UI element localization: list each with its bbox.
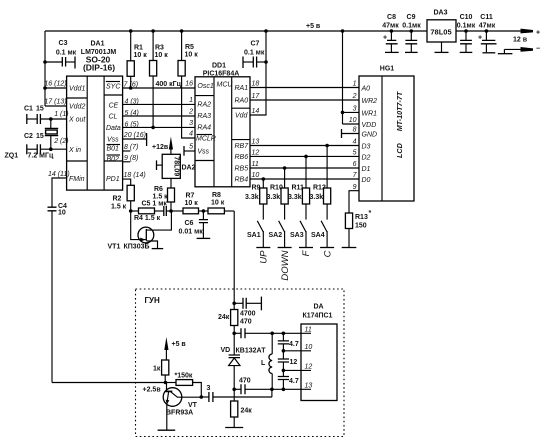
svg-text:9: 9 [353, 184, 357, 191]
svg-text:SA3: SA3 [290, 232, 304, 239]
capacitor 4.7 lower trimmer [278, 370, 299, 391]
svg-text:DA3: DA3 [433, 10, 447, 17]
svg-text:SYC: SYC [106, 84, 121, 91]
wire DA1 Vss stub with terminal [123, 133, 147, 146]
svg-text:10: 10 [252, 172, 260, 179]
svg-text:10 к: 10 к [185, 52, 199, 59]
svg-text:SA4: SA4 [311, 232, 325, 239]
svg-text:RA4: RA4 [197, 125, 211, 132]
svg-text:−: − [536, 46, 540, 53]
svg-text:12: 12 [305, 364, 313, 371]
wire +5 drop to HG1 WR1 and VDD [341, 29, 359, 124]
svg-text:UP: UP [259, 250, 270, 264]
svg-text:4.7: 4.7 [289, 341, 299, 348]
wire RB7 to HG1 D3 [250, 144, 359, 148]
svg-text:B02: B02 [107, 156, 120, 163]
svg-text:2 (2): 2 (2) [53, 138, 68, 145]
capacitor C5 1 мк [142, 201, 173, 217]
svg-text:RB4: RB4 [235, 177, 249, 184]
svg-text:78L05: 78L05 [430, 28, 451, 37]
svg-text:C8: C8 [387, 14, 396, 21]
svg-text:13: 13 [305, 383, 313, 390]
svg-text:18 (14): 18 (14) [124, 172, 146, 179]
svg-text:RB7: RB7 [235, 143, 250, 150]
svg-text:470: 470 [239, 378, 251, 385]
resistor R4 1.5 к [131, 208, 164, 222]
svg-text:15: 15 [36, 106, 44, 113]
svg-text:R4 1.5 к: R4 1.5 к [134, 215, 161, 222]
svg-text:17: 17 [252, 93, 261, 100]
svg-text:L: L [261, 360, 266, 367]
svg-text:12: 12 [290, 359, 298, 366]
wire left +5 feed vertical to DA1 Vdd [43, 31, 47, 106]
wire HG1 pin10 row stub [283, 350, 301, 352]
svg-text:3: 3 [353, 106, 357, 113]
resistor R7 10 к [171, 193, 208, 214]
resistor R6 1.5 к [153, 178, 175, 211]
svg-text:+2.5в: +2.5в [143, 387, 162, 394]
resistor R9 3.3k [245, 179, 267, 220]
node varactor drive junction [232, 302, 236, 306]
svg-text:X in: X in [68, 147, 81, 154]
transistor VT BFR93A [163, 383, 203, 431]
wire DA1 Vdd2 pin 17(13) [45, 105, 67, 107]
svg-text:R6: R6 [154, 186, 163, 193]
capacitor C2 15 [24, 133, 67, 154]
svg-text:DD1: DD1 [212, 63, 226, 70]
svg-text:11: 11 [252, 161, 259, 168]
wire RB5 to HG1 D1 [250, 166, 359, 170]
DA1 pin numbers [44, 81, 146, 180]
svg-text:1 (1): 1 (1) [54, 111, 68, 118]
resistor R2 1.5 к [111, 185, 134, 213]
svg-text:20 (16): 20 (16) [123, 132, 146, 139]
svg-text:C: C [322, 250, 333, 257]
DA1 right pin names [106, 82, 122, 184]
switch SA1 UP [247, 221, 270, 264]
capacitor C3 0.1 мк [45, 40, 77, 69]
svg-text:R1: R1 [134, 45, 143, 52]
svg-text:A0: A0 [361, 86, 371, 93]
svg-text:D3: D3 [362, 144, 371, 151]
regulator DA3 78L05 [427, 10, 456, 53]
switch SA2 DOWN [269, 221, 292, 281]
svg-text:10 к: 10 к [185, 200, 199, 207]
svg-text:R8: R8 [212, 192, 221, 199]
resistor 1к [153, 360, 169, 383]
switch SA4 C [311, 221, 334, 258]
svg-text:24к: 24к [218, 314, 230, 321]
svg-text:SA2: SA2 [269, 232, 283, 239]
svg-text:470: 470 [240, 319, 252, 326]
svg-text:+5 в: +5 в [172, 341, 187, 348]
svg-text:MCLR: MCLR [196, 136, 216, 143]
svg-text:4.7: 4.7 [289, 378, 299, 385]
IC DA1 LM7001JM body [67, 41, 123, 191]
wire HG1 GND stub with terminal [342, 129, 360, 138]
svg-text:16: 16 [185, 81, 193, 88]
wire DA1 B02 stub [123, 161, 131, 163]
regulator DA2 78L09 [157, 154, 196, 178]
svg-text:ГУН: ГУН [145, 296, 161, 305]
svg-text:R13: R13 [355, 214, 368, 221]
svg-text:2: 2 [188, 109, 193, 116]
ground below 24к [225, 427, 243, 429]
svg-text:47мк: 47мк [479, 23, 496, 30]
capacitor C11 47мк electrolytic [478, 14, 497, 53]
wire CL to RA3 [123, 115, 195, 117]
DA1 left pin names [68, 86, 86, 184]
svg-text:+: + [536, 30, 540, 37]
svg-text:RA2: RA2 [197, 102, 211, 109]
svg-text:+: + [478, 35, 482, 42]
svg-text:VD: VD [221, 347, 231, 354]
capacitor 3 coupling [201, 385, 272, 402]
wire +5 feed to DD1 Vdd pin 14 [250, 29, 268, 115]
svg-text:WR1: WR1 [362, 111, 378, 118]
svg-text:R3: R3 [155, 45, 164, 52]
svg-text:R7: R7 [186, 193, 195, 200]
svg-text:C10: C10 [460, 14, 473, 21]
svg-text:16 (12): 16 (12) [44, 81, 66, 88]
svg-text:*150к: *150к [175, 373, 193, 380]
svg-text:Vdd1: Vdd1 [69, 86, 85, 93]
svg-text:10 к: 10 к [211, 200, 225, 207]
node 400 кГц label [156, 81, 182, 88]
svg-text:9 (8): 9 (8) [124, 155, 138, 162]
svg-text:7.2 МГц: 7.2 МГц [28, 153, 54, 160]
ground below VT1 source [152, 248, 164, 250]
resistor *150к feedback [166, 373, 202, 398]
svg-text:47мк: 47мк [382, 23, 399, 30]
svg-text:D1: D1 [362, 166, 371, 173]
svg-text:12: 12 [252, 150, 260, 157]
svg-text:C7: C7 [251, 41, 260, 48]
capacitor C1 15 [24, 106, 67, 125]
svg-text:Data: Data [106, 125, 121, 132]
wire DA1 Vdd1 pin 16(12) [45, 87, 67, 89]
svg-text:5: 5 [353, 150, 357, 157]
terminal 12 в minus [498, 46, 540, 54]
svg-text:12 в: 12 в [513, 37, 528, 44]
svg-text:RA3: RA3 [197, 113, 211, 120]
capacitor 4.7 upper trimmer [278, 333, 299, 352]
wire DA1 B01 stub [123, 150, 131, 152]
svg-text:Vss: Vss [197, 149, 209, 156]
terminal 12 в plus [513, 29, 540, 44]
svg-text:8 (7): 8 (7) [124, 144, 138, 151]
svg-text:MT-10T7-7T: MT-10T7-7T [395, 91, 404, 131]
svg-text:GND: GND [362, 132, 378, 139]
wire RB6 to HG1 D2 [250, 155, 359, 159]
resistor R10 3.3k [267, 168, 289, 220]
wire Data to RA4 [123, 126, 195, 128]
IC DA К174ПС1 body [301, 304, 337, 401]
svg-text:400 кГц: 400 кГц [156, 81, 182, 88]
resistor R1 10 к [127, 29, 147, 88]
svg-text:1к: 1к [153, 366, 161, 373]
svg-text:DOWN: DOWN [280, 250, 291, 280]
ground below VT emitter [158, 429, 176, 431]
svg-text:ZQ1: ZQ1 [5, 153, 19, 160]
svg-text:КП303Б: КП303Б [124, 244, 150, 251]
svg-text:6: 6 [353, 161, 357, 168]
svg-text:4700: 4700 [240, 311, 256, 318]
capacitor C6 0.01 мк [179, 211, 211, 238]
svg-text:C9: C9 [407, 14, 416, 21]
capacitor C10 0.1мк [457, 14, 476, 52]
svg-text:RB6: RB6 [235, 154, 249, 161]
svg-text:Osc1: Osc1 [197, 83, 213, 90]
switch SA3 F [290, 221, 313, 257]
svg-text:3: 3 [189, 120, 193, 127]
svg-text:3.3k: 3.3k [245, 194, 259, 201]
svg-text:SA1: SA1 [247, 232, 261, 239]
svg-text:18: 18 [252, 81, 260, 88]
svg-text:VT1: VT1 [108, 244, 121, 251]
svg-text:DA1: DA1 [90, 41, 104, 48]
svg-text:5: 5 [189, 144, 193, 151]
svg-text:C2: C2 [24, 133, 33, 140]
capacitor C8 47мк electrolytic [382, 14, 399, 52]
svg-text:VT: VT [188, 402, 198, 409]
svg-text:R2: R2 [113, 196, 122, 203]
wire DA1 FMin to C4 [52, 178, 67, 207]
svg-text:RB5: RB5 [235, 166, 249, 173]
resistor R8 10 к [208, 192, 234, 214]
svg-text:0.01 мк: 0.01 мк [179, 229, 204, 236]
svg-text:2: 2 [352, 93, 357, 100]
svg-text:C1: C1 [24, 106, 33, 113]
svg-text:3.3k: 3.3k [267, 194, 281, 201]
capacitor C7 0.1 мк [243, 41, 268, 69]
ground below R13 [342, 247, 357, 249]
capacitor C4 10 [48, 203, 68, 383]
varicap VD КВ132АТ [221, 333, 267, 389]
svg-text:1.5 к: 1.5 к [153, 194, 169, 201]
node +12в arrow [152, 137, 173, 155]
wire RA1 to HG1 A0 [250, 87, 359, 89]
svg-text:3.3k: 3.3k [310, 194, 324, 201]
resistor 24к upper [218, 303, 238, 333]
svg-text:4: 4 [353, 139, 357, 146]
svg-text:VDD: VDD [362, 122, 377, 129]
svg-text:10 к: 10 к [155, 52, 169, 59]
wire pin12 row stub [283, 369, 301, 371]
svg-text:(DIP-16): (DIP-16) [83, 63, 115, 73]
svg-text:0.1 мк: 0.1 мк [56, 50, 77, 57]
svg-text:11: 11 [305, 327, 312, 334]
svg-text:PD1: PD1 [106, 176, 120, 183]
svg-text:4: 4 [189, 131, 193, 138]
svg-text:*: * [369, 210, 372, 217]
svg-text:Vdd: Vdd [235, 113, 249, 120]
svg-text:CL: CL [109, 114, 118, 121]
svg-text:X out: X out [68, 117, 86, 124]
wire RA0 to HG1 WR2 [250, 99, 359, 101]
svg-text:14: 14 [252, 108, 260, 115]
inductor L [261, 333, 272, 389]
svg-text:R5: R5 [185, 44, 194, 51]
svg-text:+: + [383, 35, 387, 42]
wire collector riser to tank [271, 389, 273, 397]
svg-text:HG1: HG1 [380, 66, 395, 73]
svg-text:D2: D2 [362, 155, 371, 162]
svg-text:1.5 к: 1.5 к [111, 204, 127, 211]
wire +5V top rail [45, 30, 520, 32]
svg-text:RA0: RA0 [235, 98, 249, 105]
svg-text:C6: C6 [185, 220, 194, 227]
node +5 в label [306, 23, 321, 30]
svg-text:10: 10 [58, 210, 66, 217]
IC DD1 PIC16F84A body [195, 63, 250, 187]
svg-text:DA: DA [314, 304, 324, 311]
wire FM baseband into VCO [52, 381, 167, 385]
svg-text:D0: D0 [362, 177, 371, 184]
svg-text:+5 в: +5 в [306, 23, 321, 30]
svg-text:LCD: LCD [395, 143, 404, 158]
svg-text:3: 3 [207, 385, 211, 392]
svg-text:Vdd2: Vdd2 [69, 104, 85, 111]
resistor 24к lower [231, 389, 253, 427]
crystal ZQ1 7.2 МГц [5, 117, 59, 159]
svg-text:24к: 24к [241, 408, 253, 415]
svg-text:FMin: FMin [69, 176, 85, 183]
svg-text:0.1мк: 0.1мк [402, 23, 421, 30]
capacitor 4700 [234, 297, 261, 318]
VCO dashed enclosure ГУН [136, 289, 345, 437]
resistor R13 150 [345, 210, 371, 248]
node +2.5в label [143, 387, 162, 394]
svg-text:13: 13 [252, 139, 260, 146]
svg-text:+12в: +12в [152, 144, 169, 151]
svg-text:10: 10 [349, 117, 357, 124]
capacitor 470 lower [232, 378, 301, 395]
DD1 pin numbers [185, 81, 260, 180]
capacitor 470 upper [232, 319, 301, 339]
resistor R5 10 к [178, 29, 198, 138]
svg-text:WR2: WR2 [362, 98, 378, 105]
IC HG1 MT-10T7-7T LCD body [359, 66, 414, 202]
wire R8 to VCO tuning line [233, 211, 235, 303]
svg-text:CE: CE [109, 103, 119, 110]
svg-text:10 к: 10 к [134, 52, 148, 59]
capacitor 12 [278, 351, 298, 372]
resistor R3 10 к [150, 29, 169, 129]
svg-text:BFR93A: BFR93A [166, 410, 193, 417]
svg-text:C11: C11 [480, 14, 493, 21]
svg-text:0.1 мк: 0.1 мк [244, 50, 265, 57]
svg-text:15: 15 [36, 133, 44, 140]
wire SYC to Osc1 400kHz net [123, 86, 195, 90]
svg-text:1: 1 [189, 97, 193, 104]
svg-text:B01: B01 [107, 146, 120, 153]
svg-text:1: 1 [353, 81, 357, 88]
svg-text:КВ132АТ: КВ132АТ [236, 348, 267, 355]
svg-text:10: 10 [305, 344, 313, 351]
resistor R11 3.3k [288, 156, 310, 219]
svg-text:17 (13): 17 (13) [44, 99, 66, 106]
svg-text:0.1мк: 0.1мк [457, 23, 476, 30]
wire CE to RA2 [123, 103, 195, 105]
wire DA1 PD1 to R2 [123, 179, 131, 185]
svg-text:MCU: MCU [217, 82, 234, 89]
wire RB4 to HG1 D0 [250, 177, 359, 181]
DD1 pin names [196, 82, 249, 184]
svg-text:78L09: 78L09 [173, 156, 180, 176]
wire DD1 Vss stub with terminal [184, 146, 195, 156]
node +5 в arrow in VCO [164, 337, 186, 360]
resistor R12 3.3k [310, 146, 331, 220]
svg-text:C3: C3 [59, 40, 68, 47]
transistor VT1 КП303Б JFET [108, 211, 172, 251]
svg-text:К174ПС1: К174ПС1 [303, 313, 333, 320]
wire HG1 pin 9 to R13 [349, 191, 359, 213]
svg-text:3.3k: 3.3k [288, 194, 302, 201]
svg-text:150: 150 [355, 223, 367, 230]
svg-text:8: 8 [353, 127, 357, 134]
capacitor C9 0.1мк [402, 14, 421, 52]
svg-text:DA2: DA2 [182, 165, 196, 172]
svg-text:RA1: RA1 [235, 85, 249, 92]
svg-text:14 (11): 14 (11) [48, 171, 70, 178]
svg-text:Vss: Vss [107, 137, 119, 144]
HG1 pin numbers [349, 81, 358, 192]
